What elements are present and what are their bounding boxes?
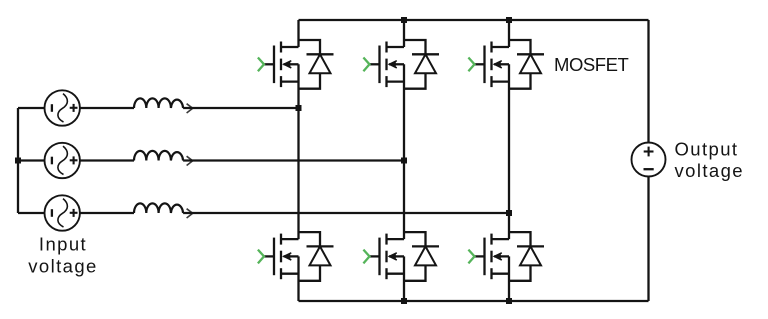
MOSFET Q5 [363, 234, 404, 280]
diode D5 [404, 232, 439, 281]
wire: leg 1 drain riser [297, 20, 299, 47]
inductor L3 [134, 203, 193, 218]
MOSFET Q1 [258, 42, 299, 88]
wire: leg 2 midpoint [403, 64, 405, 239]
svg-text:voltage: voltage [28, 255, 97, 276]
AC source V3 [45, 195, 80, 230]
label: Output voltage [675, 139, 744, 182]
node: bottom bus / leg 2 [401, 298, 407, 304]
svg-text:Input: Input [39, 234, 87, 255]
svg-text:voltage: voltage [675, 160, 744, 181]
diode D3 [509, 40, 544, 89]
wire: phase C to leg 3 [183, 212, 509, 214]
wire: left input bus [17, 108, 19, 213]
wire: V3 to L3 [80, 212, 135, 214]
wire: stub to V1 [18, 107, 45, 109]
wire: positive DC bus (top) [299, 19, 649, 21]
wire: leg 2 drain riser [403, 20, 405, 47]
wire: stub to V2 [18, 159, 45, 161]
AC source V2 [45, 143, 80, 178]
wire: V2 to L2 [80, 159, 135, 161]
node: top bus / leg 3 [506, 17, 512, 23]
node: phase B / leg 2 [401, 158, 407, 164]
MOSFET Q2 [363, 42, 404, 88]
node: bottom bus / leg 3 [506, 298, 512, 304]
wire: negative DC bus (bottom) [299, 300, 649, 302]
label: Input voltage [28, 234, 97, 277]
wire: leg 3 drain riser [508, 20, 510, 47]
wire: output negative rise [647, 177, 649, 302]
node: phase C / leg 3 [506, 210, 512, 216]
wire: leg 1 source drop [297, 256, 299, 301]
inductor L1 [134, 98, 193, 113]
node: input bus junction [15, 158, 21, 164]
DC output source [632, 143, 666, 177]
diode D4 [299, 232, 334, 281]
wire: leg 3 midpoint [508, 64, 510, 239]
wire: stub to V3 [18, 212, 45, 214]
wire: output positive drop [647, 20, 649, 143]
diode D2 [404, 40, 439, 89]
node: phase A / leg 1 [296, 105, 302, 111]
AC source V1 [45, 90, 80, 125]
wire: leg 3 source drop [508, 256, 510, 301]
wire: leg 1 midpoint [297, 64, 299, 239]
MOSFET Q3 [468, 42, 509, 88]
svg-text:Output: Output [675, 139, 739, 160]
diode D6 [509, 232, 544, 281]
diode D1 [299, 40, 334, 89]
wire: phase A to leg 1 [183, 107, 298, 109]
inductor L2 [134, 151, 193, 166]
wire: leg 2 source drop [403, 256, 405, 301]
svg-text:MOSFET: MOSFET [554, 54, 629, 75]
node: top bus / leg 2 [401, 17, 407, 23]
wire: phase B to leg 2 [183, 159, 404, 161]
wire: V1 to L1 [80, 107, 135, 109]
MOSFET Q6 [468, 234, 509, 280]
MOSFET Q4 [258, 234, 299, 280]
